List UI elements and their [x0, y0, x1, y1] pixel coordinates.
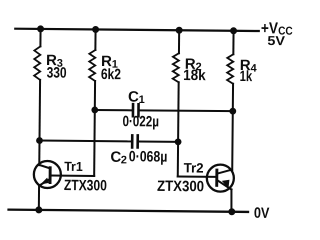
svg-text:0·022µ: 0·022µ	[122, 113, 159, 130]
label R4	[240, 57, 258, 75]
wire: 0V bottom rail	[9, 210, 248, 212]
wire: Tr1 collector up to node B	[38, 141, 40, 166]
label +VCC 5V	[261, 20, 293, 48]
label R3	[46, 52, 63, 70]
svg-text:0·068µ: 0·068µ	[129, 148, 168, 165]
resistor R3	[34, 46, 40, 80]
svg-text:ZTX300: ZTX300	[64, 177, 107, 194]
svg-text:330: 330	[47, 64, 67, 81]
wire: R3 to collector node	[39, 80, 42, 141]
wire: node B down to Tr2 base corner	[177, 142, 179, 177]
capacitor C2	[132, 135, 138, 147]
resistor R4	[227, 54, 233, 84]
wire: R2 to node B	[177, 82, 180, 142]
wire: +VCC top rail	[15, 29, 258, 31]
label R2	[185, 56, 202, 74]
wire: rail to R4	[232, 31, 234, 54]
svg-text:6k2: 6k2	[101, 66, 121, 83]
wire: node B to C2 left plate	[40, 140, 131, 143]
svg-text:ZTX300: ZTX300	[157, 178, 204, 195]
wire: C2 right plate to R2 column	[139, 140, 178, 142]
label R1	[101, 53, 118, 71]
wire: R1 to node A	[94, 81, 96, 110]
svg-text:1k: 1k	[240, 68, 253, 85]
wire: rail to R2	[178, 30, 180, 53]
wire: node A to C1 left plate	[95, 109, 132, 111]
svg-text:18k: 18k	[183, 67, 206, 84]
wire: rail to R3	[39, 29, 41, 46]
junction: top rail / R1	[92, 26, 99, 33]
resistor R2	[173, 53, 179, 82]
label C2	[110, 149, 127, 167]
wire: Tr2 base lead	[178, 175, 216, 177]
junction: top rail / R3	[37, 25, 44, 32]
junction: node A (R1 / C1 / Tr1 base)	[91, 107, 98, 114]
capacitor C1	[133, 104, 139, 116]
svg-text:Tr2: Tr2	[184, 160, 204, 175]
junction: Tr2 emitter / 0V rail	[228, 208, 235, 215]
svg-text:1: 1	[139, 94, 145, 106]
wire: Tr2 emitter to 0V rail	[230, 189, 232, 211]
transistor Tr2 (ZTX300, npn)	[207, 165, 234, 192]
transistor Tr1 (ZTX300, npn)	[34, 161, 61, 188]
junction: node B (Tr1 collector / R3 / C2)	[36, 137, 43, 144]
wire: rail to R1	[94, 29, 96, 49]
wire: Tr1 emitter to 0V rail	[38, 186, 40, 210]
junction: top rail / R2	[176, 27, 183, 34]
wire: Tr1 base lead	[51, 175, 94, 177]
junction: Tr2 collector / C1 / R4	[229, 108, 236, 115]
label C1	[128, 88, 145, 106]
wire: node A down to Tr1 base corner	[93, 110, 96, 176]
resistor R1	[89, 50, 95, 81]
wire: R4 to Tr2 collector	[231, 84, 234, 170]
wire: C1 right plate to Tr2 collector node	[140, 109, 233, 112]
svg-text:0V: 0V	[254, 205, 270, 220]
svg-text:Tr1: Tr1	[64, 159, 83, 174]
junction: Tr1 emitter / 0V rail	[35, 206, 42, 213]
junction: R2 / C2 / Tr2 base node	[175, 138, 182, 145]
svg-text:C: C	[128, 88, 139, 105]
svg-text:5V: 5V	[267, 33, 285, 48]
svg-text:2: 2	[121, 154, 127, 166]
junction: top rail / R4	[230, 27, 237, 34]
